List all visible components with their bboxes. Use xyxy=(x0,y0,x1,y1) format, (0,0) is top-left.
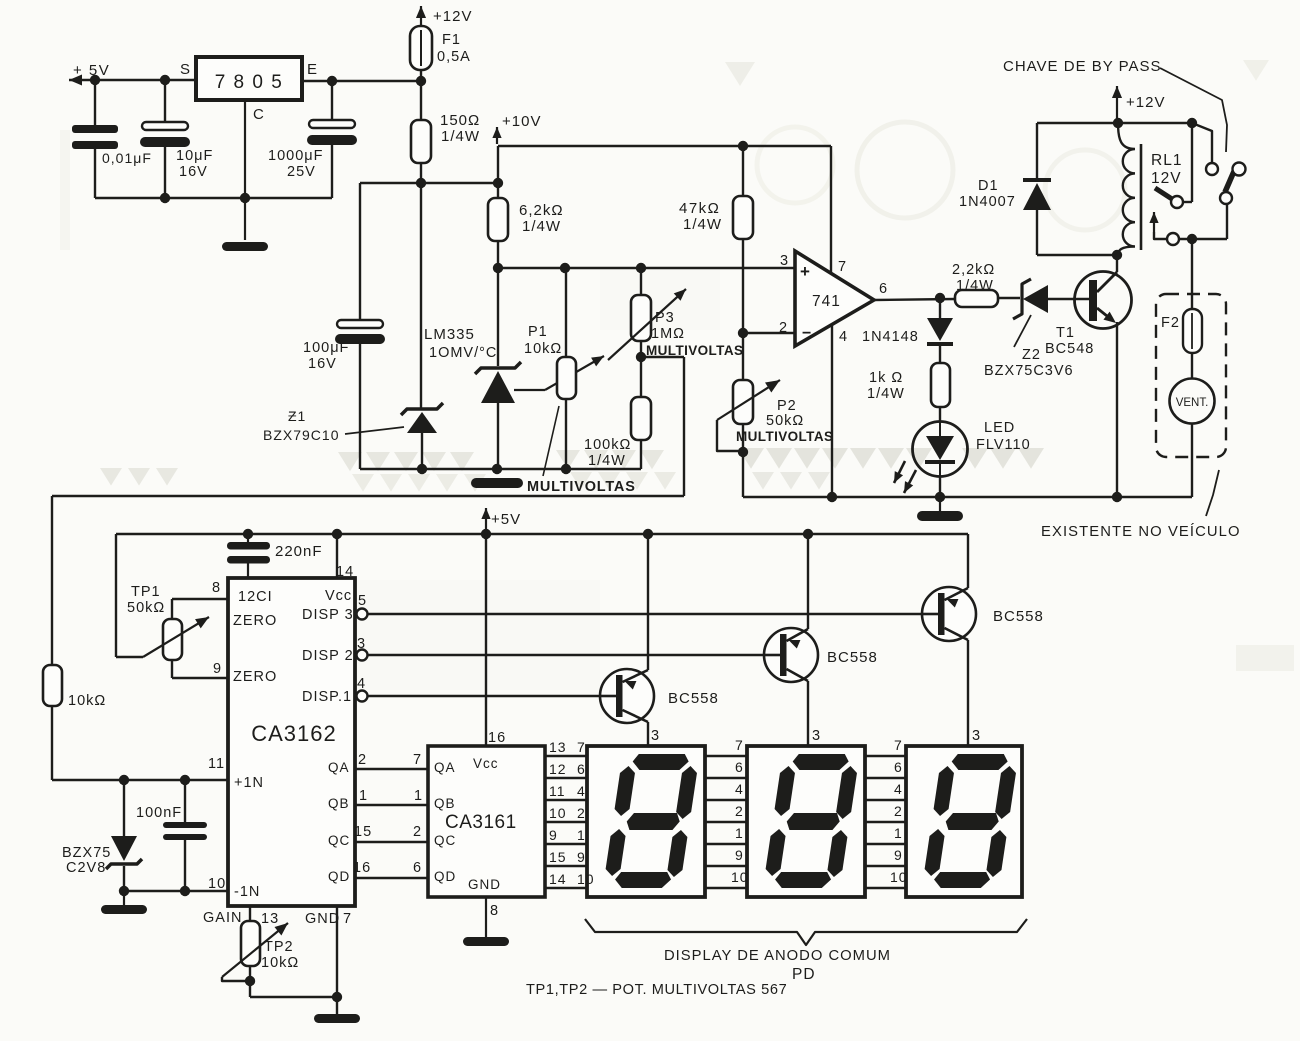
svg-text:3: 3 xyxy=(812,728,821,744)
svg-text:Z2: Z2 xyxy=(1022,347,1041,363)
svg-text:9: 9 xyxy=(577,849,586,865)
svg-text:2: 2 xyxy=(358,752,367,768)
svg-text:TP1: TP1 xyxy=(131,584,161,600)
svg-text:1MΩ: 1MΩ xyxy=(651,326,685,342)
svg-text:DISP 3: DISP 3 xyxy=(302,607,354,623)
svg-text:1/4W: 1/4W xyxy=(441,128,480,145)
svg-text:12V: 12V xyxy=(1151,170,1182,187)
svg-text:−: − xyxy=(802,325,811,342)
svg-text:RL1: RL1 xyxy=(1151,152,1182,169)
svg-text:CA3162: CA3162 xyxy=(251,721,337,746)
svg-text:DISPLAY DE ANODO COMUM: DISPLAY DE ANODO COMUM xyxy=(664,948,891,964)
svg-text:50kΩ: 50kΩ xyxy=(127,600,165,616)
svg-text:7 8 0 5: 7 8 0 5 xyxy=(215,72,284,93)
svg-text:47kΩ: 47kΩ xyxy=(679,200,720,217)
svg-text:15: 15 xyxy=(549,849,567,865)
svg-text:3: 3 xyxy=(651,728,660,744)
svg-text:4: 4 xyxy=(894,781,903,797)
svg-text:10: 10 xyxy=(577,871,595,887)
svg-text:2: 2 xyxy=(735,803,744,819)
svg-text:1/4W: 1/4W xyxy=(867,386,905,402)
svg-text:6,2kΩ: 6,2kΩ xyxy=(519,202,564,219)
svg-text:1/4W: 1/4W xyxy=(956,278,994,294)
svg-text:Ƶ1: Ƶ1 xyxy=(288,408,306,424)
svg-text:MULTIVOLTAS: MULTIVOLTAS xyxy=(527,479,636,495)
svg-text:S: S xyxy=(180,61,191,78)
svg-text:ZERO: ZERO xyxy=(233,669,277,685)
svg-text:1N4148: 1N4148 xyxy=(862,329,919,345)
svg-text:BC548: BC548 xyxy=(1045,341,1094,357)
svg-text:8: 8 xyxy=(490,903,499,919)
svg-text:TP2: TP2 xyxy=(264,939,294,955)
svg-text:25V: 25V xyxy=(287,164,316,180)
svg-text:14: 14 xyxy=(549,871,567,887)
svg-text:220nF: 220nF xyxy=(275,543,323,560)
svg-text:1/4W: 1/4W xyxy=(522,218,561,235)
svg-text:13: 13 xyxy=(549,739,567,755)
svg-text:6: 6 xyxy=(413,860,422,876)
svg-text:1: 1 xyxy=(414,788,423,804)
svg-text:1: 1 xyxy=(359,788,368,804)
svg-text:1OMV/°C: 1OMV/°C xyxy=(429,345,497,361)
svg-text:MULTIVOLTAS: MULTIVOLTAS xyxy=(646,343,743,358)
svg-text:7: 7 xyxy=(343,911,352,927)
svg-text:1: 1 xyxy=(577,827,586,843)
svg-text:CA3161: CA3161 xyxy=(445,812,517,833)
svg-text:13: 13 xyxy=(261,911,279,927)
svg-text:TP1,TP2 — POT. MULTIVOLTAS: TP1,TP2 — POT. MULTIVOLTAS 567 xyxy=(526,982,787,998)
svg-text:10: 10 xyxy=(549,805,567,821)
svg-text:16: 16 xyxy=(488,730,506,746)
svg-text:10kΩ: 10kΩ xyxy=(261,955,299,971)
svg-text:QC: QC xyxy=(434,833,456,848)
svg-text:3: 3 xyxy=(972,728,981,744)
svg-text:QC: QC xyxy=(328,833,350,848)
svg-text:-1N: -1N xyxy=(234,884,260,900)
svg-text:10: 10 xyxy=(731,869,749,885)
svg-text:12CI: 12CI xyxy=(238,589,273,605)
svg-text:16V: 16V xyxy=(179,164,208,180)
svg-text:741: 741 xyxy=(812,293,841,310)
svg-text:100kΩ: 100kΩ xyxy=(584,437,631,453)
svg-text:E: E xyxy=(307,61,318,78)
svg-text:P1: P1 xyxy=(528,324,548,340)
svg-text:BZX75: BZX75 xyxy=(62,845,111,861)
svg-text:C2V8: C2V8 xyxy=(66,860,106,876)
svg-text:+5V: +5V xyxy=(491,511,521,528)
svg-text:7: 7 xyxy=(413,752,422,768)
svg-text:F1: F1 xyxy=(442,32,461,48)
svg-text:EXISTENTE NO VEÍCULO: EXISTENTE NO VEÍCULO xyxy=(1041,523,1241,540)
svg-text:10kΩ: 10kΩ xyxy=(68,693,106,709)
svg-text:6: 6 xyxy=(577,761,586,777)
svg-text:11: 11 xyxy=(549,783,566,799)
svg-text:1k Ω: 1k Ω xyxy=(869,370,903,386)
svg-text:12: 12 xyxy=(549,761,567,777)
svg-text:LM335: LM335 xyxy=(424,326,475,343)
svg-text:P3: P3 xyxy=(655,310,675,326)
svg-text:BC558: BC558 xyxy=(827,649,878,666)
svg-text:LED: LED xyxy=(984,420,1015,436)
svg-text:2: 2 xyxy=(577,805,586,821)
svg-text:BC558: BC558 xyxy=(993,608,1044,625)
svg-text:2,2kΩ: 2,2kΩ xyxy=(952,262,995,278)
svg-text:15: 15 xyxy=(354,824,372,840)
svg-text:1: 1 xyxy=(894,825,903,841)
svg-text:DISP 2: DISP 2 xyxy=(302,648,354,664)
svg-text:DISP.1: DISP.1 xyxy=(302,689,352,705)
svg-text:5: 5 xyxy=(358,593,367,609)
svg-text:T1: T1 xyxy=(1056,325,1075,341)
svg-text:+: + xyxy=(800,262,810,281)
svg-text:9: 9 xyxy=(549,827,558,843)
svg-text:0,01μF: 0,01μF xyxy=(102,150,152,166)
svg-text:16V: 16V xyxy=(308,356,337,372)
svg-text:C: C xyxy=(253,106,265,123)
svg-text:BZX75C3V6: BZX75C3V6 xyxy=(984,363,1074,379)
svg-text:MULTIVOLTAS: MULTIVOLTAS xyxy=(736,429,833,444)
svg-text:1/4W: 1/4W xyxy=(588,453,626,469)
svg-text:10: 10 xyxy=(890,869,908,885)
svg-text:6: 6 xyxy=(894,759,903,775)
svg-text:ZERO: ZERO xyxy=(233,613,277,629)
svg-text:4: 4 xyxy=(577,783,586,799)
svg-text:FLV110: FLV110 xyxy=(976,437,1031,453)
svg-text:2: 2 xyxy=(779,320,788,336)
svg-text:10kΩ: 10kΩ xyxy=(524,341,562,357)
svg-text:Vcc: Vcc xyxy=(325,588,352,604)
svg-text:150Ω: 150Ω xyxy=(440,112,480,129)
svg-text:9: 9 xyxy=(894,847,903,863)
svg-text:1: 1 xyxy=(735,825,744,841)
svg-text:1000μF: 1000μF xyxy=(268,148,323,164)
svg-text:2: 2 xyxy=(413,824,422,840)
svg-text:16: 16 xyxy=(353,860,371,876)
svg-text:9: 9 xyxy=(213,661,222,677)
svg-text:+12V: +12V xyxy=(433,8,472,25)
svg-text:QB: QB xyxy=(434,796,456,811)
svg-text:4: 4 xyxy=(735,781,744,797)
svg-text:QD: QD xyxy=(434,869,456,884)
svg-text:7: 7 xyxy=(735,737,744,753)
svg-text:4: 4 xyxy=(839,329,848,345)
svg-text:0,5A: 0,5A xyxy=(437,49,471,65)
svg-text:6: 6 xyxy=(879,281,888,297)
svg-text:GND: GND xyxy=(305,911,340,927)
svg-text:BC558: BC558 xyxy=(668,690,719,707)
svg-text:1/4W: 1/4W xyxy=(683,216,722,233)
svg-text:7: 7 xyxy=(577,739,586,755)
svg-text:QB: QB xyxy=(328,796,350,811)
svg-text:VENT.: VENT. xyxy=(1176,397,1209,409)
svg-text:3: 3 xyxy=(780,253,789,269)
svg-text:6: 6 xyxy=(735,759,744,775)
svg-text:+1N: +1N xyxy=(234,775,264,791)
svg-text:11: 11 xyxy=(208,756,225,772)
svg-text:D1: D1 xyxy=(978,178,999,194)
svg-text:GND: GND xyxy=(468,877,501,892)
svg-text:10: 10 xyxy=(208,876,226,892)
svg-text:Vcc: Vcc xyxy=(473,756,499,771)
svg-text:8: 8 xyxy=(212,580,221,596)
svg-text:QA: QA xyxy=(434,760,456,775)
svg-text:CHAVE DE BY PASS: CHAVE DE BY PASS xyxy=(1003,58,1162,75)
svg-text:7: 7 xyxy=(894,737,903,753)
svg-text:F2: F2 xyxy=(1161,315,1180,331)
svg-text:10μF: 10μF xyxy=(176,148,213,164)
svg-text:9: 9 xyxy=(735,847,744,863)
svg-text:2: 2 xyxy=(894,803,903,819)
svg-text:BZX79C10: BZX79C10 xyxy=(263,427,339,443)
svg-text:7: 7 xyxy=(838,259,847,275)
svg-text:PD: PD xyxy=(792,966,816,983)
svg-text:GAIN: GAIN xyxy=(203,910,242,926)
svg-text:100μF: 100μF xyxy=(303,340,349,356)
svg-text:P2: P2 xyxy=(777,398,797,414)
svg-text:1N4007: 1N4007 xyxy=(959,194,1016,210)
svg-text:100nF: 100nF xyxy=(136,805,182,821)
svg-text:50kΩ: 50kΩ xyxy=(766,413,804,429)
svg-text:+12V: +12V xyxy=(1126,94,1165,111)
svg-text:QD: QD xyxy=(328,869,350,884)
svg-text:QA: QA xyxy=(328,760,350,775)
svg-text:+10V: +10V xyxy=(502,113,541,130)
